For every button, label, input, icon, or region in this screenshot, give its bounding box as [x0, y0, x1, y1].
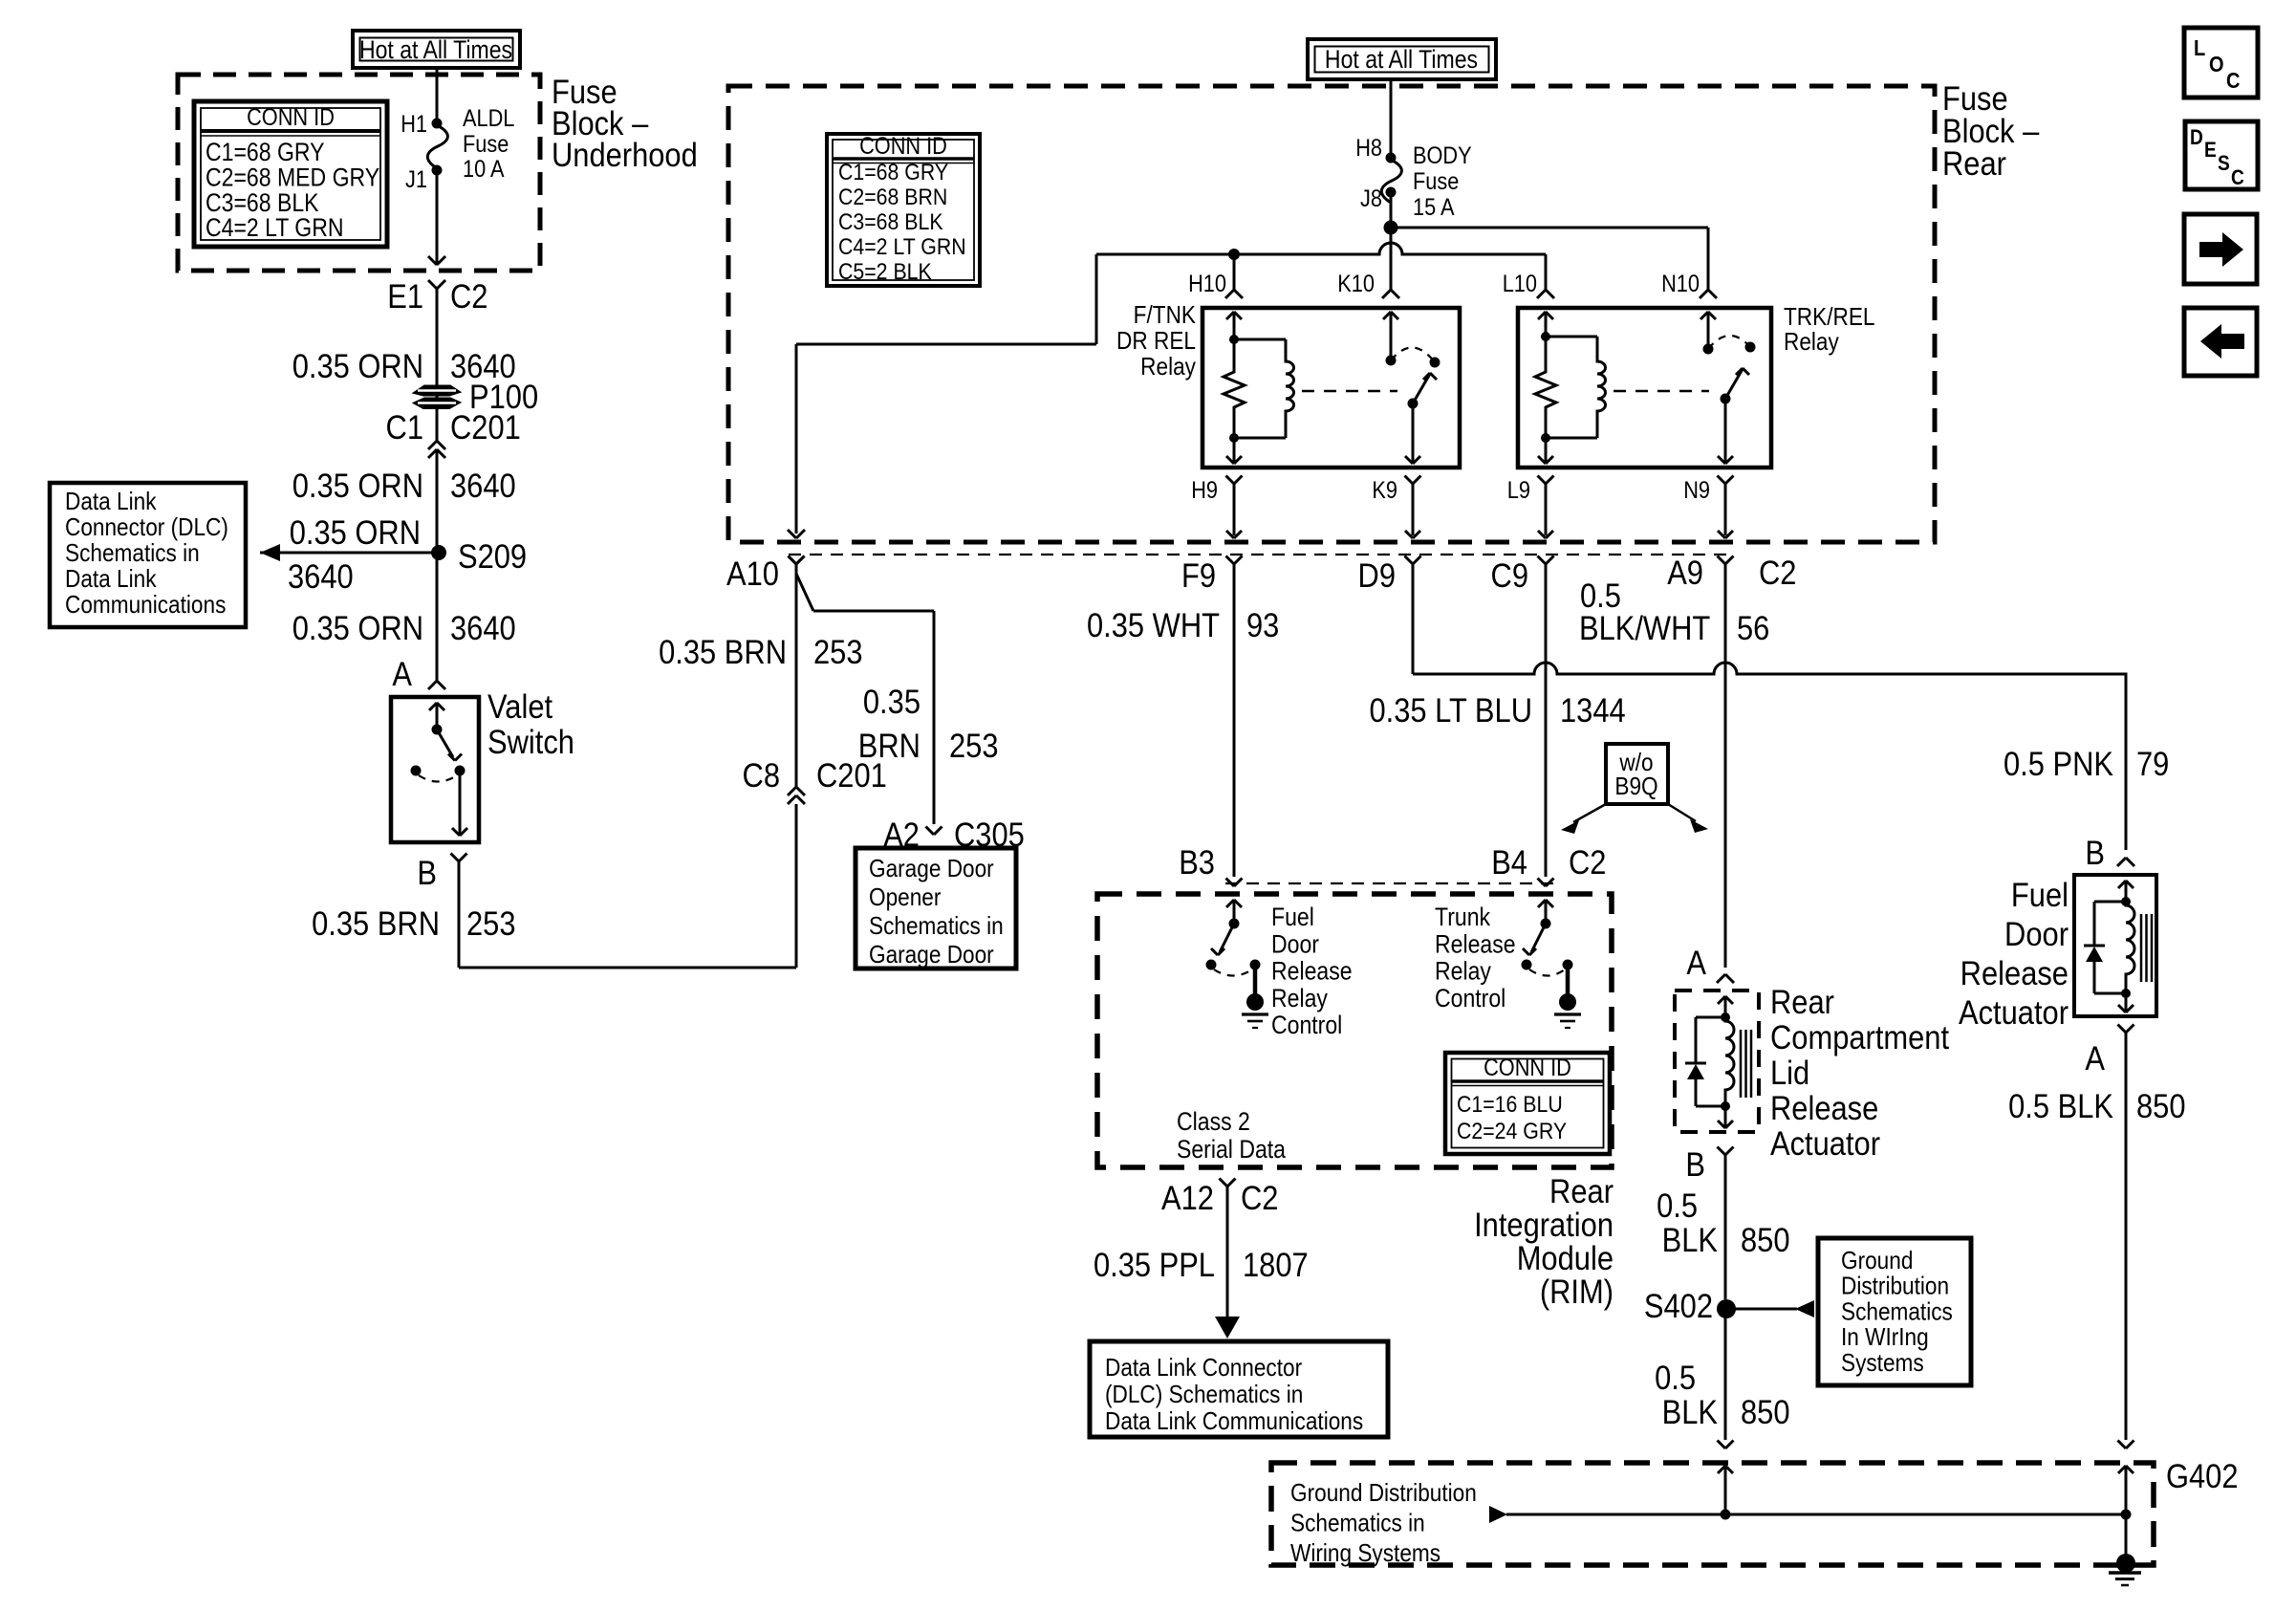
svg-text:0.35 ORN: 0.35 ORN — [292, 468, 423, 505]
svg-text:Relay: Relay — [1271, 985, 1328, 1012]
svg-text:(DLC) Schematics in: (DLC) Schematics in — [1105, 1382, 1303, 1409]
svg-text:Compartment: Compartment — [1770, 1019, 1949, 1056]
svg-text:Ground Distribution: Ground Distribution — [1290, 1480, 1477, 1508]
svg-text:Fuse: Fuse — [463, 131, 509, 158]
svg-text:CONN ID: CONN ID — [247, 104, 335, 131]
svg-text:C4=2 LT GRN: C4=2 LT GRN — [206, 215, 344, 243]
svg-text:Relay: Relay — [1140, 354, 1197, 381]
svg-text:BLK: BLK — [1662, 1222, 1718, 1259]
svg-text:0.5: 0.5 — [1655, 1360, 1696, 1397]
svg-text:TRK/REL: TRK/REL — [1784, 304, 1874, 332]
svg-text:Fuel: Fuel — [2011, 877, 2069, 914]
svg-text:L: L — [2194, 35, 2205, 61]
svg-text:F/TNK: F/TNK — [1134, 302, 1196, 330]
svg-text:Integration: Integration — [1474, 1207, 1614, 1244]
svg-text:F9: F9 — [1181, 557, 1216, 595]
svg-text:0.5: 0.5 — [1657, 1187, 1698, 1225]
svg-text:Serial Data: Serial Data — [1177, 1137, 1286, 1165]
svg-text:G402: G402 — [2166, 1458, 2239, 1495]
svg-text:Schematics in: Schematics in — [869, 913, 1004, 941]
svg-text:Module: Module — [1517, 1240, 1614, 1277]
svg-text:79: 79 — [2136, 746, 2169, 783]
svg-text:Rear: Rear — [1549, 1173, 1614, 1210]
svg-text:C2: C2 — [1759, 555, 1796, 592]
svg-text:H9: H9 — [1191, 477, 1218, 504]
svg-text:BRN: BRN — [858, 728, 921, 765]
svg-text:L10: L10 — [1503, 271, 1537, 297]
svg-text:Release: Release — [1435, 931, 1516, 959]
svg-text:J8: J8 — [1360, 185, 1382, 212]
svg-text:A12: A12 — [1161, 1180, 1214, 1217]
svg-text:3640: 3640 — [288, 558, 354, 596]
svg-text:0.35 BRN: 0.35 BRN — [312, 905, 440, 943]
svg-text:Opener: Opener — [869, 884, 941, 912]
svg-text:ALDL: ALDL — [463, 105, 514, 132]
svg-text:S402: S402 — [1644, 1288, 1713, 1325]
svg-text:Data Link Communications: Data Link Communications — [1105, 1408, 1363, 1436]
svg-text:CONN ID: CONN ID — [859, 133, 947, 160]
svg-text:Release: Release — [1770, 1090, 1878, 1127]
svg-text:C2: C2 — [450, 278, 487, 316]
svg-text:C201: C201 — [450, 409, 521, 446]
svg-text:B4: B4 — [1491, 844, 1527, 882]
svg-text:H1: H1 — [401, 111, 427, 138]
svg-text:A: A — [1686, 945, 1706, 982]
svg-text:D9: D9 — [1358, 557, 1396, 595]
svg-text:C: C — [2231, 166, 2244, 190]
svg-text:Trunk: Trunk — [1435, 904, 1491, 932]
svg-text:93: 93 — [1246, 607, 1279, 644]
svg-text:56: 56 — [1737, 610, 1769, 647]
svg-text:S: S — [2218, 152, 2230, 176]
svg-text:0.35 ORN: 0.35 ORN — [292, 348, 423, 385]
svg-text:Hot at All Times: Hot at All Times — [359, 37, 512, 65]
svg-text:C1: C1 — [386, 409, 423, 446]
svg-text:C1=68 GRY: C1=68 GRY — [838, 159, 948, 185]
svg-text:253: 253 — [813, 634, 863, 671]
svg-text:15 A: 15 A — [1413, 194, 1455, 221]
svg-text:C3=68 BLK: C3=68 BLK — [838, 208, 943, 235]
svg-text:0.35 WHT: 0.35 WHT — [1087, 607, 1220, 644]
svg-text:0.35 PPL: 0.35 PPL — [1094, 1247, 1215, 1284]
svg-text:J1: J1 — [405, 166, 427, 193]
svg-text:Control: Control — [1435, 985, 1505, 1012]
svg-text:Rear: Rear — [1770, 984, 1834, 1021]
svg-text:Relay: Relay — [1784, 329, 1840, 357]
svg-text:C2=68 BRN: C2=68 BRN — [838, 184, 947, 210]
svg-text:Actuator: Actuator — [1770, 1125, 1880, 1163]
svg-text:B3: B3 — [1179, 844, 1215, 882]
svg-text:0.35 BRN: 0.35 BRN — [659, 634, 787, 671]
svg-text:Schematics: Schematics — [1841, 1298, 1953, 1326]
svg-text:0.35 ORN: 0.35 ORN — [290, 514, 421, 552]
svg-text:Schematics in: Schematics in — [1290, 1510, 1425, 1537]
svg-text:C3=68 BLK: C3=68 BLK — [206, 189, 319, 217]
svg-text:A10: A10 — [726, 555, 779, 593]
svg-text:Rear: Rear — [1942, 145, 2006, 183]
svg-text:Garage Door: Garage Door — [869, 942, 994, 969]
svg-text:0.5 BLK: 0.5 BLK — [2008, 1088, 2113, 1125]
svg-text:E: E — [2204, 139, 2217, 163]
svg-text:C5=2 BLK: C5=2 BLK — [838, 258, 932, 285]
svg-text:H10: H10 — [1188, 271, 1226, 297]
svg-text:BLK: BLK — [1662, 1394, 1718, 1431]
svg-text:Release: Release — [1960, 955, 2069, 992]
svg-text:Fuse: Fuse — [1413, 168, 1459, 195]
svg-text:B: B — [1685, 1146, 1705, 1184]
svg-text:B: B — [2085, 835, 2105, 872]
svg-text:(RIM): (RIM) — [1540, 1274, 1614, 1311]
svg-text:DR REL: DR REL — [1116, 328, 1196, 356]
svg-text:L9: L9 — [1507, 477, 1530, 504]
svg-text:In WIrIng: In WIrIng — [1841, 1324, 1929, 1352]
svg-text:Lid: Lid — [1770, 1055, 1809, 1092]
svg-text:E1: E1 — [387, 278, 423, 316]
svg-text:Door: Door — [2004, 916, 2069, 953]
svg-text:A9: A9 — [1667, 555, 1703, 592]
svg-text:Schematics in: Schematics in — [65, 540, 200, 568]
svg-text:O: O — [2209, 52, 2224, 77]
svg-text:Control: Control — [1271, 1012, 1342, 1040]
svg-text:N10: N10 — [1661, 271, 1700, 297]
svg-text:3640: 3640 — [450, 468, 516, 505]
svg-text:Class 2: Class 2 — [1177, 1109, 1250, 1137]
svg-text:Connector (DLC): Connector (DLC) — [65, 514, 228, 542]
svg-text:Distribution: Distribution — [1841, 1273, 1949, 1300]
svg-text:C9: C9 — [1491, 557, 1528, 595]
svg-text:C1=16 BLU: C1=16 BLU — [1457, 1091, 1563, 1118]
svg-text:Communications: Communications — [65, 592, 226, 620]
svg-text:Ground: Ground — [1841, 1248, 1913, 1275]
svg-text:Underhood: Underhood — [552, 137, 698, 174]
svg-text:C8: C8 — [743, 757, 780, 795]
svg-text:Fuel: Fuel — [1271, 904, 1314, 932]
svg-text:1344: 1344 — [1560, 692, 1626, 729]
svg-text:Data Link: Data Link — [65, 489, 157, 516]
svg-text:D: D — [2190, 126, 2203, 150]
svg-text:10 A: 10 A — [463, 156, 505, 183]
svg-text:A: A — [2085, 1040, 2105, 1078]
svg-text:C2=24 GRY: C2=24 GRY — [1457, 1118, 1567, 1144]
svg-text:Wiring Systems: Wiring Systems — [1290, 1540, 1440, 1568]
svg-text:Data Link: Data Link — [65, 566, 157, 594]
svg-text:H8: H8 — [1355, 135, 1382, 162]
svg-text:Switch: Switch — [487, 724, 574, 761]
svg-text:253: 253 — [466, 905, 516, 943]
svg-text:CONN ID: CONN ID — [1484, 1055, 1571, 1081]
svg-text:S209: S209 — [458, 538, 527, 576]
svg-text:850: 850 — [1741, 1394, 1790, 1431]
svg-text:C: C — [2226, 68, 2240, 94]
svg-text:K9: K9 — [1372, 477, 1397, 504]
svg-text:Data Link Connector: Data Link Connector — [1105, 1355, 1302, 1382]
svg-text:Hot at All Times: Hot at All Times — [1325, 47, 1478, 75]
svg-text:0.35 LT BLU: 0.35 LT BLU — [1369, 692, 1532, 729]
svg-text:Door: Door — [1271, 931, 1319, 959]
svg-text:0.35 ORN: 0.35 ORN — [292, 610, 423, 647]
svg-text:850: 850 — [2136, 1088, 2186, 1125]
svg-text:B9Q: B9Q — [1614, 773, 1657, 801]
svg-text:C2=68 MED GRY: C2=68 MED GRY — [206, 164, 380, 192]
svg-text:A: A — [392, 656, 412, 693]
svg-text:K10: K10 — [1337, 271, 1375, 297]
svg-text:Actuator: Actuator — [1959, 994, 2069, 1032]
svg-text:B: B — [417, 855, 437, 892]
svg-text:0.5 PNK: 0.5 PNK — [2004, 746, 2113, 783]
svg-text:253: 253 — [949, 728, 999, 765]
svg-text:850: 850 — [1741, 1222, 1790, 1259]
svg-text:C1=68 GRY: C1=68 GRY — [206, 140, 325, 167]
svg-text:C4=2 LT GRN: C4=2 LT GRN — [838, 233, 966, 260]
svg-text:C2: C2 — [1241, 1180, 1278, 1217]
svg-text:Release: Release — [1271, 958, 1353, 986]
svg-text:1807: 1807 — [1243, 1247, 1309, 1284]
svg-text:Garage Door: Garage Door — [869, 856, 994, 883]
svg-text:Relay: Relay — [1435, 958, 1491, 986]
svg-text:C2: C2 — [1569, 844, 1606, 882]
svg-text:BLK/WHT: BLK/WHT — [1579, 610, 1710, 647]
svg-text:BODY: BODY — [1413, 142, 1472, 169]
svg-text:Valet: Valet — [487, 688, 552, 726]
svg-text:0.35: 0.35 — [863, 684, 921, 721]
svg-text:Systems: Systems — [1841, 1349, 1924, 1377]
svg-text:3640: 3640 — [450, 610, 516, 647]
svg-text:N9: N9 — [1683, 477, 1710, 504]
